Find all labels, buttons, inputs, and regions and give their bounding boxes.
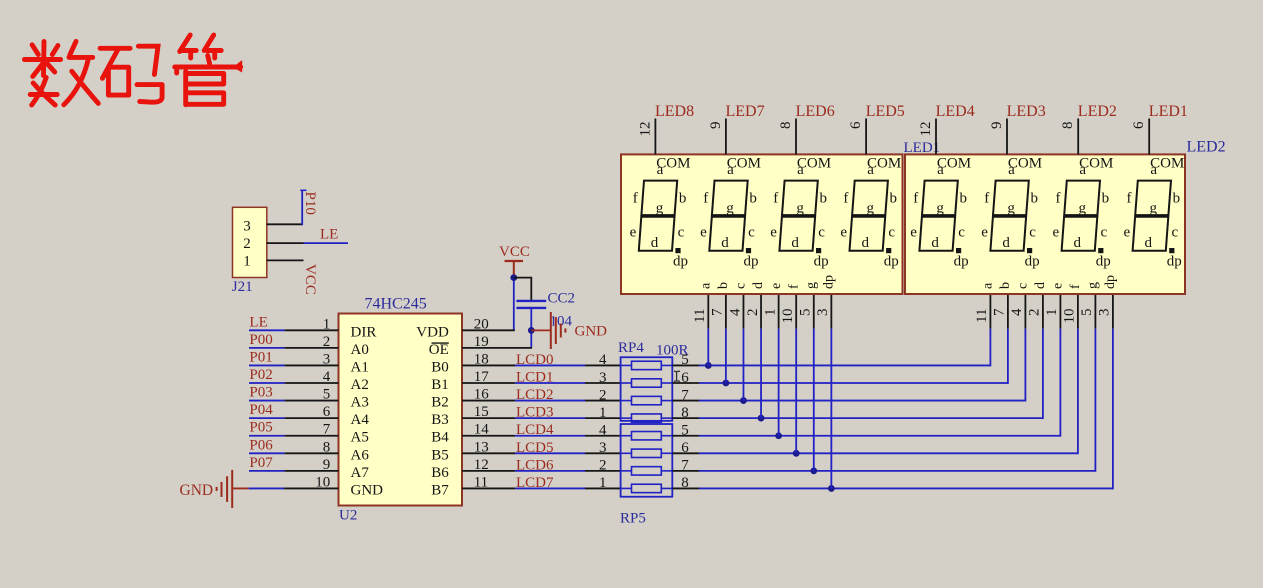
svg-text:d: d: [1074, 235, 1082, 251]
svg-text:8: 8: [681, 475, 689, 491]
svg-text:11: 11: [692, 309, 708, 323]
svg-text:6: 6: [681, 440, 689, 456]
svg-text:B6: B6: [431, 465, 449, 481]
wire display1 segment pin 4: [742, 294, 744, 329]
wire display2 segment pin 11: [989, 294, 991, 329]
svg-text:LED8: LED8: [655, 103, 694, 120]
svg-text:dp: dp: [1103, 275, 1118, 289]
svg-text:f: f: [1056, 191, 1061, 207]
wire net LCD4 U2 to RP: [462, 435, 515, 437]
svg-text:a: a: [1079, 162, 1086, 178]
svg-text:e: e: [630, 225, 637, 241]
svg-text:9: 9: [708, 122, 724, 130]
digit 1 seven segment outline: [639, 181, 677, 251]
svg-text:A4: A4: [351, 412, 370, 428]
svg-text:4: 4: [599, 423, 607, 439]
svg-text:c: c: [958, 225, 965, 241]
svg-text:LCD7: LCD7: [516, 475, 554, 491]
ic U2 74HC245 body: [339, 314, 463, 506]
svg-text:LE: LE: [249, 314, 267, 330]
svg-text:dp: dp: [673, 254, 688, 270]
svg-text:A3: A3: [351, 395, 369, 411]
wire LE net: [304, 242, 349, 244]
svg-text:d: d: [751, 282, 766, 289]
svg-text:f: f: [703, 191, 708, 207]
svg-text:f: f: [633, 191, 638, 207]
wire display1 segment pin 10: [795, 294, 797, 329]
node VCC junction: [510, 274, 517, 281]
svg-text:b: b: [998, 282, 1013, 289]
wire display2 segment pin 5: [1094, 294, 1096, 329]
digit 6 decimal point: [1027, 248, 1032, 253]
svg-text:a: a: [699, 282, 714, 289]
wire net LCD0 U2 to RP: [462, 364, 515, 366]
svg-text:7: 7: [681, 458, 689, 474]
svg-text:a: a: [1150, 162, 1157, 178]
svg-text:P01: P01: [249, 349, 272, 365]
digit 8 decimal point: [1169, 248, 1174, 253]
digit 2 seven segment outline: [709, 181, 747, 251]
svg-text:1: 1: [243, 253, 251, 269]
svg-text:2: 2: [745, 309, 761, 317]
svg-text:VCC: VCC: [302, 264, 318, 295]
svg-text:b: b: [716, 282, 731, 289]
digit 7 seven segment outline: [1062, 181, 1100, 251]
wire VCC to U2 pin20 VDD: [513, 276, 515, 330]
svg-text:7: 7: [681, 387, 689, 403]
digit 6 seven segment outline: [990, 181, 1028, 251]
svg-text:c: c: [1171, 225, 1178, 241]
svg-text:P10: P10: [302, 192, 318, 215]
svg-text:8: 8: [681, 405, 689, 421]
svg-text:P04: P04: [249, 402, 273, 418]
svg-text:c: c: [818, 225, 825, 241]
svg-text:c: c: [1100, 225, 1107, 241]
node junction display1 column 2: [722, 380, 729, 387]
svg-text:LCD6: LCD6: [516, 457, 554, 473]
svg-text:5: 5: [1079, 309, 1095, 317]
wire P10 vertical: [301, 190, 303, 225]
svg-text:P03: P03: [249, 385, 272, 401]
svg-text:3: 3: [599, 370, 607, 386]
wire COM pin 6 of digit: [1148, 119, 1150, 155]
node junction display1 column 4: [758, 415, 765, 422]
node junction display1 column 6: [793, 450, 800, 457]
resistor network RP5 body: [621, 424, 673, 497]
svg-text:P06: P06: [249, 437, 273, 453]
svg-text:LED7: LED7: [726, 103, 765, 120]
wire display2 segment pin 4: [1024, 294, 1026, 329]
wire display1 segment pin 5: [813, 294, 815, 329]
digit 5 decimal point: [956, 248, 961, 253]
svg-text:RP5: RP5: [620, 511, 646, 527]
svg-text:d: d: [1145, 235, 1153, 251]
wire display2 segment pin 2: [1042, 294, 1044, 329]
svg-text:A7: A7: [351, 465, 370, 481]
wire segment row 6 from RP to displays: [672, 452, 699, 454]
svg-text:f: f: [843, 191, 848, 207]
wire COM pin 9 of digit: [1006, 119, 1008, 155]
wire net P03 to U2 pin 5: [249, 400, 285, 402]
svg-text:DIR: DIR: [351, 324, 377, 340]
svg-text:74HC245: 74HC245: [365, 296, 427, 313]
svg-text:LCD0: LCD0: [516, 352, 554, 368]
svg-text:B2: B2: [431, 395, 449, 411]
wire segment row 8 from RP to displays: [672, 417, 699, 419]
svg-text:P00: P00: [249, 332, 272, 348]
node junction display1 column 1: [705, 362, 712, 369]
svg-text:c: c: [748, 225, 755, 241]
RP5 resistor element 1: [621, 435, 632, 437]
svg-text:2: 2: [1027, 309, 1043, 317]
svg-text:dp: dp: [954, 254, 969, 270]
svg-text:g: g: [1007, 201, 1015, 217]
svg-text:1: 1: [599, 475, 607, 491]
wire display2 segment pin 7: [1007, 294, 1009, 329]
svg-text:c: c: [1016, 283, 1031, 289]
wire segment row 5 from RP to displays: [672, 435, 699, 437]
svg-text:P02: P02: [249, 367, 272, 383]
wire segment row 7 from RP to displays: [672, 470, 699, 472]
wire U2 pin10 to GND: [232, 487, 249, 489]
svg-text:g: g: [796, 201, 804, 217]
svg-text:10: 10: [1062, 309, 1078, 324]
svg-text:1: 1: [599, 405, 607, 421]
svg-text:f: f: [786, 284, 801, 289]
svg-text:b: b: [1030, 191, 1038, 207]
svg-text:LED3: LED3: [1007, 103, 1046, 120]
svg-text:LED5: LED5: [866, 103, 905, 120]
wire COM pin 12 of digit: [654, 119, 656, 155]
svg-text:d: d: [721, 235, 729, 251]
svg-text:d: d: [861, 235, 869, 251]
digit 4 seven segment outline: [850, 181, 888, 251]
digit 3 decimal point: [816, 248, 821, 253]
svg-text:A5: A5: [351, 430, 369, 446]
svg-text:5: 5: [798, 309, 814, 317]
svg-text:a: a: [727, 162, 734, 178]
svg-text:e: e: [769, 283, 784, 289]
wire net P01 to U2 pin 3: [249, 364, 285, 366]
svg-text:12: 12: [637, 122, 653, 137]
svg-text:3: 3: [243, 218, 251, 234]
svg-text:OE: OE: [429, 342, 449, 358]
svg-text:J21: J21: [232, 279, 253, 295]
svg-text:b: b: [1102, 191, 1110, 207]
wire VCC junction to capacitor top: [514, 278, 532, 300]
svg-text:a: a: [867, 162, 874, 178]
svg-text:LED1: LED1: [904, 140, 941, 156]
wire display1 segment pin 1: [778, 294, 780, 329]
svg-text:4: 4: [1009, 308, 1025, 316]
svg-text:c: c: [888, 225, 895, 241]
wire net P04 to U2 pin 6: [249, 417, 285, 419]
svg-text:3: 3: [815, 309, 831, 317]
svg-text:e: e: [770, 225, 777, 241]
digit 3 seven segment outline: [779, 181, 817, 251]
svg-text:dp: dp: [822, 275, 837, 289]
svg-text:a: a: [1008, 162, 1015, 178]
svg-text:f: f: [913, 191, 918, 207]
digit 4 decimal point: [886, 248, 891, 253]
wire net LE to U2 pin 1: [249, 329, 285, 331]
svg-text:B1: B1: [431, 377, 449, 393]
svg-text:b: b: [1173, 191, 1181, 207]
svg-text:11: 11: [974, 309, 990, 323]
svg-text:LED6: LED6: [796, 103, 835, 120]
svg-text:P07: P07: [249, 455, 273, 471]
svg-text:e: e: [700, 225, 707, 241]
svg-text:g: g: [1150, 201, 1158, 217]
display LED1 body: [621, 154, 903, 294]
svg-text:5: 5: [681, 352, 689, 368]
svg-text:LCD4: LCD4: [516, 422, 554, 438]
svg-text:LE: LE: [320, 226, 338, 242]
wire net LCD2 U2 to RP: [462, 400, 515, 402]
svg-text:g: g: [804, 282, 819, 289]
svg-text:b: b: [749, 191, 757, 207]
svg-text:f: f: [984, 191, 989, 207]
svg-text:RP4: RP4: [618, 340, 644, 356]
wire COM pin 9 of digit: [725, 119, 727, 155]
svg-text:g: g: [936, 201, 944, 217]
wire J21 pin3 to P10: [267, 223, 303, 225]
svg-text:A0: A0: [351, 342, 369, 358]
node junction display1 column 8: [828, 485, 835, 492]
svg-text:g: g: [866, 201, 874, 217]
svg-text:1: 1: [1044, 309, 1060, 317]
OE overline: [432, 342, 449, 344]
svg-text:10: 10: [780, 309, 796, 324]
svg-text:P05: P05: [249, 420, 272, 436]
svg-text:A2: A2: [351, 377, 369, 393]
RP5 resistor element 3: [621, 470, 632, 472]
svg-text:7: 7: [992, 308, 1008, 316]
svg-text:6: 6: [681, 370, 689, 386]
svg-text:d: d: [931, 235, 939, 251]
wire junction to ground symbol: [531, 329, 550, 331]
svg-text:g: g: [1079, 201, 1087, 217]
svg-text:7: 7: [710, 308, 726, 316]
svg-text:5: 5: [681, 423, 689, 439]
svg-text:LCD2: LCD2: [516, 387, 554, 403]
wire display1 segment pin 11: [707, 294, 709, 329]
RP5 resistor element 4: [621, 487, 632, 489]
wire net LCD5 U2 to RP: [462, 452, 515, 454]
svg-text:c: c: [734, 283, 749, 289]
svg-text:LED1: LED1: [1149, 103, 1188, 120]
svg-text:3: 3: [1097, 309, 1113, 317]
capacitor CC2 plates: [516, 300, 546, 302]
svg-text:4: 4: [599, 352, 607, 368]
svg-text:LED2: LED2: [1187, 138, 1226, 155]
svg-text:VDD: VDD: [416, 324, 449, 340]
wire net LCD6 U2 to RP: [462, 470, 515, 472]
digit 1 decimal point: [675, 248, 680, 253]
RP4 resistor element 2: [621, 382, 632, 384]
svg-text:d: d: [651, 235, 659, 251]
svg-text:LCD5: LCD5: [516, 440, 554, 456]
text cursor artifact: [674, 371, 680, 382]
svg-text:f: f: [1127, 191, 1132, 207]
wire net P02 to U2 pin 4: [249, 382, 285, 384]
svg-text:B7: B7: [431, 482, 449, 498]
wire display1 segment pin 2: [760, 294, 762, 329]
wire capacitor bottom to OE and ground: [530, 309, 532, 348]
title text 数码管: [24, 35, 242, 105]
power ground symbol right: [550, 312, 552, 349]
svg-text:g: g: [726, 201, 734, 217]
svg-text:f: f: [1068, 284, 1083, 289]
svg-text:A1: A1: [351, 359, 369, 375]
svg-text:LCD3: LCD3: [516, 405, 554, 421]
node junction display1 column 7: [810, 467, 817, 474]
svg-text:12: 12: [918, 122, 934, 137]
svg-text:B5: B5: [431, 447, 449, 463]
svg-text:e: e: [1052, 225, 1059, 241]
wire display1 segment pin 3: [830, 294, 832, 329]
digit 7 decimal point: [1098, 248, 1103, 253]
RP4 resistor element 3: [621, 400, 632, 402]
svg-text:B4: B4: [431, 430, 449, 446]
RP5 resistor element 2: [621, 452, 632, 454]
svg-text:dp: dp: [1167, 254, 1182, 270]
wire COM pin 8 of digit: [1077, 119, 1079, 155]
connector J21: [233, 207, 267, 277]
svg-text:B3: B3: [431, 412, 449, 428]
svg-text:a: a: [657, 162, 664, 178]
svg-text:2: 2: [243, 236, 251, 252]
svg-text:a: a: [981, 282, 996, 289]
svg-text:b: b: [890, 191, 898, 207]
digit 8 seven segment outline: [1133, 181, 1171, 251]
svg-text:c: c: [678, 225, 685, 241]
svg-text:9: 9: [989, 122, 1005, 130]
node junction display1 column 5: [775, 432, 782, 439]
svg-text:f: f: [773, 191, 778, 207]
wire COM pin 12 of digit: [935, 119, 937, 155]
RP4 resistor element 4: [621, 417, 632, 419]
svg-text:A6: A6: [351, 447, 370, 463]
wire display2 segment pin 10: [1077, 294, 1079, 329]
svg-text:GND: GND: [575, 323, 608, 339]
display LED2 body: [905, 154, 1185, 294]
svg-text:VCC: VCC: [499, 244, 530, 260]
power ground symbol left: [231, 470, 233, 508]
svg-text:LED2: LED2: [1078, 103, 1117, 120]
svg-text:dp: dp: [744, 254, 759, 270]
svg-text:e: e: [840, 225, 847, 241]
svg-text:2: 2: [599, 458, 607, 474]
digit 5 seven segment outline: [919, 181, 957, 251]
resistor network RP4 body: [621, 357, 673, 421]
svg-text:d: d: [1033, 282, 1048, 289]
wire J21 pin2 to LE: [267, 242, 304, 244]
svg-text:8: 8: [778, 122, 794, 130]
wire net LCD3 U2 to RP: [462, 417, 515, 419]
svg-text:b: b: [819, 191, 827, 207]
wire net LCD7 U2 to RP: [462, 487, 515, 489]
wire segment row 6 from RP to displays: [672, 382, 699, 384]
svg-text:6: 6: [1131, 121, 1147, 129]
svg-text:e: e: [981, 225, 988, 241]
node junction display1 column 3: [740, 397, 747, 404]
svg-text:d: d: [791, 235, 799, 251]
svg-text:LED4: LED4: [936, 103, 975, 120]
digit 2 decimal point: [746, 248, 751, 253]
svg-text:GND: GND: [180, 482, 214, 499]
wire net P05 to U2 pin 7: [249, 435, 285, 437]
wire display1 segment pin 7: [725, 294, 727, 329]
svg-text:d: d: [1002, 235, 1010, 251]
wire display2 segment pin 1: [1059, 294, 1061, 329]
svg-text:3: 3: [599, 440, 607, 456]
svg-text:GND: GND: [351, 482, 384, 498]
svg-text:b: b: [959, 191, 967, 207]
svg-text:e: e: [910, 225, 917, 241]
svg-text:4: 4: [727, 308, 743, 316]
svg-text:c: c: [1029, 225, 1036, 241]
wire segment row 8 from RP to displays: [672, 487, 699, 489]
wire net P07 to U2 pin 9: [249, 470, 285, 472]
RP4 resistor element 1: [621, 364, 632, 366]
svg-text:e: e: [1123, 225, 1130, 241]
wire segment row 5 from RP to displays: [672, 364, 699, 366]
svg-text:6: 6: [848, 121, 864, 129]
wire display2 segment pin 3: [1112, 294, 1114, 329]
svg-text:a: a: [937, 162, 944, 178]
wire segment row 7 from RP to displays: [672, 400, 699, 402]
wire net LCD1 U2 to RP: [462, 382, 515, 384]
svg-text:U2: U2: [339, 508, 357, 524]
svg-text:LCD1: LCD1: [516, 370, 554, 386]
svg-text:2: 2: [599, 387, 607, 403]
wire J21 pin1 VCC: [267, 259, 304, 261]
wire COM pin 8 of digit: [795, 119, 797, 155]
svg-text:dp: dp: [884, 254, 899, 270]
svg-text:b: b: [679, 191, 687, 207]
svg-text:dp: dp: [1025, 254, 1040, 270]
svg-text:a: a: [797, 162, 804, 178]
svg-text:dp: dp: [1096, 254, 1111, 270]
wire COM pin 6 of digit: [865, 119, 867, 155]
node ground junction: [528, 327, 535, 334]
svg-text:e: e: [1051, 283, 1066, 289]
svg-text:B0: B0: [431, 359, 449, 375]
wire net P00 to U2 pin 2: [249, 347, 285, 349]
svg-text:dp: dp: [814, 254, 829, 270]
wire net P06 to U2 pin 8: [249, 452, 285, 454]
svg-text:g: g: [656, 201, 664, 217]
svg-text:g: g: [1086, 282, 1101, 289]
svg-text:CC2: CC2: [548, 291, 576, 307]
svg-text:1: 1: [762, 309, 778, 317]
svg-text:8: 8: [1060, 122, 1076, 130]
